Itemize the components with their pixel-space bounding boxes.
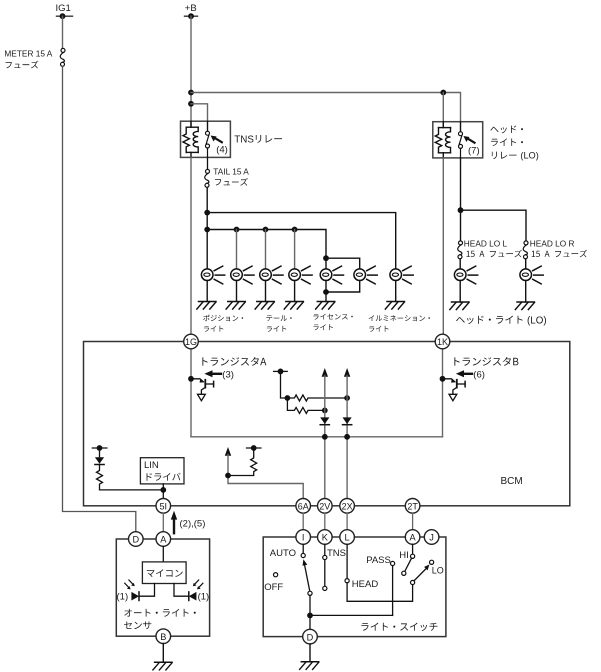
wire I to AUTO contact: [302, 544, 304, 553]
svg-text:HEAD LO R: HEAD LO R: [530, 238, 575, 248]
junction lamp3: [263, 227, 269, 233]
connector 2X: [340, 499, 355, 514]
wire license parallel top: [326, 258, 360, 269]
svg-text:J: J: [429, 533, 434, 543]
resistor R1 to 2X line: [287, 395, 347, 401]
wire +B to TNS relay switch: [191, 104, 208, 131]
connector 1K: [435, 334, 450, 349]
wire head lamp L ground: [459, 281, 461, 303]
wire 6A branch: [228, 455, 303, 499]
wire right head fuse to lamp: [525, 259, 527, 269]
wire IG1 to METER fuse: [62, 16, 64, 48]
contact HI blade end: [402, 571, 406, 575]
node pullup T-bar: [274, 369, 288, 375]
label illumination light: [369, 315, 430, 332]
svg-text:2X: 2X: [342, 501, 353, 511]
wire 1G to rail: [190, 349, 192, 437]
svg-text:(4): (4): [216, 145, 228, 156]
wire to head relay coil: [442, 93, 444, 128]
lamp illumination: [390, 266, 413, 284]
wire lamp1 drop: [206, 230, 208, 270]
rail 1G to 1K: [191, 436, 443, 438]
fuse HEAD LO L 15 A: [458, 238, 522, 258]
junction lamp2: [234, 227, 240, 233]
wire LIN branch top: [99, 448, 101, 457]
ground light switch: [300, 662, 319, 670]
resistor R2 to 2V line: [287, 398, 324, 413]
wire TNS coil to 1G: [190, 157, 192, 334]
ground lamp7: [385, 302, 404, 310]
svg-text:A: A: [410, 533, 417, 543]
label light switch: [361, 623, 437, 631]
svg-text:D: D: [132, 535, 139, 545]
wire head relay switch down: [460, 158, 462, 241]
wire 2X to L: [346, 513, 348, 530]
lamp license 1: [320, 266, 343, 284]
svg-text:K: K: [322, 533, 329, 543]
svg-text:HI: HI: [399, 550, 409, 561]
wire common: [310, 614, 393, 616]
label license light: [313, 314, 352, 331]
wire L to HEAD contact: [346, 544, 348, 578]
wire sensor A to micon: [162, 546, 164, 562]
junction license parallel bottom: [323, 289, 329, 295]
photodiode left (1): [117, 580, 140, 603]
wire micon to right photodiode: [174, 584, 188, 597]
label head light LO: [456, 316, 522, 324]
contact AUTO blade end: [308, 591, 312, 595]
svg-text:+B: +B: [185, 3, 197, 14]
box micon: [142, 562, 186, 584]
lamp position 1: [201, 266, 224, 284]
wire TNS switch to TAIL fuse: [207, 157, 209, 169]
connector switch L: [340, 530, 355, 545]
box light switch: [263, 537, 446, 637]
wire license parallel bottom: [326, 281, 360, 293]
wire lamp2 to ground: [236, 281, 238, 302]
contact PASS: [391, 561, 395, 565]
junction bus1: [204, 210, 210, 216]
wire lamp5 to ground: [325, 281, 327, 302]
contact TNS bottom: [323, 586, 327, 590]
contact AUTO: [301, 553, 305, 557]
arrow up 2V: [322, 368, 328, 377]
wire AUTO blade to common: [309, 595, 311, 629]
wire PASS to common: [392, 566, 394, 616]
contact TNS top: [323, 555, 327, 559]
lamp head LO right: [520, 266, 543, 284]
lamp license 2: [354, 266, 377, 284]
blade LO: [414, 565, 429, 581]
wire lamp4 to ground: [294, 281, 296, 302]
svg-text:(2),(5): (2),(5): [180, 518, 206, 529]
wire TAIL fuse to lamp bus: [206, 188, 208, 230]
arrow up 2X: [344, 368, 350, 377]
svg-text:BCM: BCM: [501, 476, 523, 487]
svg-text:(7): (7): [468, 145, 480, 156]
ground lamp4: [284, 302, 303, 310]
svg-text:TAIL 15 A: TAIL 15 A: [213, 167, 249, 177]
svg-text:IG1: IG1: [56, 3, 71, 14]
wire bus1 to illumination lamp: [207, 213, 396, 269]
wire pullup down: [281, 371, 288, 398]
wire +B to head light relay: [191, 93, 461, 132]
contact HEAD: [345, 579, 349, 583]
box LIN driver: [140, 458, 184, 484]
wire 5I to sensor A: [162, 513, 164, 532]
diode D2 on 2X: [343, 417, 352, 424]
wire METER fuse to sensor D: [63, 67, 136, 533]
junction lamp4: [292, 227, 298, 233]
contact LO blade end: [411, 580, 415, 584]
resistor R3 6A branch: [228, 448, 257, 476]
ground sensor: [153, 662, 172, 670]
junction 2X rail: [344, 434, 350, 440]
node LIN T-bar: [92, 445, 107, 451]
label auto light sensor: [124, 609, 196, 629]
arrow up 6A branch: [225, 447, 231, 456]
node 6A T-bar: [247, 445, 261, 451]
junction pullup: [285, 395, 291, 401]
junction switch common: [307, 613, 313, 619]
svg-text:L: L: [345, 533, 350, 543]
junction +B head relay branch: [188, 90, 194, 96]
ground lamp3: [255, 302, 274, 310]
wire +B to TNS relay coil: [190, 16, 192, 127]
junction 2V rail: [322, 434, 328, 440]
fuse METER 15 A: [4, 48, 65, 68]
wire head relay coil to 1K: [442, 158, 444, 334]
svg-text:2T: 2T: [407, 501, 418, 511]
svg-text:HEAD LO L: HEAD LO L: [464, 238, 508, 248]
label position light: [203, 315, 243, 332]
wire 2T to switch A: [412, 513, 414, 530]
wire 6A to I: [302, 513, 304, 530]
wire 1K to rail: [442, 349, 444, 437]
svg-text:PASS: PASS: [366, 555, 391, 566]
svg-text:(LO): (LO): [527, 315, 547, 326]
svg-text:D: D: [307, 632, 314, 642]
connector switch A: [405, 530, 420, 545]
svg-text:HEAD: HEAD: [352, 579, 379, 590]
junction +B TNS switch branch: [188, 101, 194, 107]
wire to right head fuse: [461, 210, 527, 241]
connector 6A: [296, 499, 311, 514]
svg-text:LO: LO: [432, 566, 444, 576]
ground lamp1: [197, 302, 216, 310]
label tail light: [266, 315, 291, 331]
blade HI: [405, 558, 412, 571]
wire bus2: [207, 230, 326, 270]
connector 1G: [184, 334, 199, 349]
wire head lamp R ground: [525, 281, 527, 303]
photodiode right (1): [189, 580, 209, 603]
ground head lamp L: [450, 302, 469, 310]
transistor A (3): [188, 357, 266, 401]
wire TNS segment: [324, 560, 326, 587]
svg-text:(3): (3): [222, 370, 234, 381]
svg-text:1K: 1K: [437, 337, 448, 347]
contact LO: [430, 560, 434, 564]
svg-text:I: I: [302, 533, 305, 543]
diode D1 on 2V: [320, 417, 329, 424]
svg-text:5I: 5I: [160, 501, 168, 511]
connector switch J: [424, 530, 439, 545]
lamp position 2: [231, 266, 254, 284]
svg-text:(LO): (LO): [520, 151, 538, 161]
svg-text:(1): (1): [198, 592, 210, 603]
junction bus2: [204, 227, 210, 233]
wire K to TNS contact: [324, 544, 326, 555]
connector sensor B: [156, 629, 171, 644]
wire 2X line: [346, 376, 348, 499]
wire lamp1 to ground: [206, 281, 208, 302]
BCM box: [84, 342, 570, 506]
lamp tail 2: [289, 266, 312, 284]
ground head lamp R: [515, 302, 534, 310]
wire switch A to HI contact: [412, 544, 414, 554]
svg-text:(6): (6): [473, 370, 485, 381]
node IG1 terminal: [56, 3, 73, 19]
wire micon to left photodiode: [140, 584, 155, 597]
connector 2T: [405, 499, 420, 514]
svg-text:TNS: TNS: [234, 134, 254, 145]
transistor B (6): [440, 357, 519, 401]
wire 2V line: [324, 376, 326, 499]
wire 2V to K: [324, 513, 326, 530]
fuse HEAD LO R 15 A: [523, 238, 587, 258]
svg-text:LIN: LIN: [144, 460, 159, 471]
wire lamp2 drop: [236, 230, 238, 270]
wire lamp3 to ground: [265, 281, 267, 302]
svg-text:B: B: [160, 632, 166, 642]
arrow (2),(5): [171, 511, 206, 533]
contact OFF: [274, 573, 278, 577]
wire left head fuse to lamp: [459, 259, 461, 269]
fuse TAIL 15 A: [205, 167, 250, 188]
lamp tail 1: [260, 266, 283, 284]
junction R1 2X: [344, 395, 350, 401]
node +B terminal: [185, 3, 198, 19]
ground lamp2: [226, 302, 245, 310]
contact HI: [411, 554, 415, 558]
junction 6A branch: [225, 473, 231, 479]
wire sensor B ground: [162, 644, 164, 663]
blade AUTO: [303, 559, 310, 591]
ground lamp5: [316, 302, 335, 310]
junction head fuses: [458, 207, 464, 213]
connector switch I: [296, 530, 311, 545]
box auto light sensor: [116, 539, 209, 636]
wire HEAD to LO blade: [347, 583, 413, 602]
junction R2 2V: [322, 408, 328, 414]
svg-text:TNS: TNS: [327, 548, 346, 559]
svg-text:AUTO: AUTO: [270, 548, 296, 559]
junction license parallel top: [323, 255, 329, 261]
wire lamp4 drop: [294, 230, 296, 270]
svg-text:(1): (1): [117, 592, 129, 603]
wire LIN box to 5I: [162, 484, 164, 499]
junction head relay coil branch: [440, 90, 446, 96]
svg-text:OFF: OFF: [264, 582, 283, 593]
connector 2V: [318, 499, 333, 514]
connector switch D: [303, 629, 318, 644]
svg-text:A: A: [160, 535, 167, 545]
wire lamp7 to ground: [395, 281, 397, 302]
lamp head LO left: [454, 266, 477, 284]
connector sensor A: [156, 532, 171, 547]
relay TNS (4): [181, 121, 283, 157]
wire lamp3 drop: [265, 230, 267, 270]
wire switch D ground: [309, 644, 311, 662]
connector 5I: [156, 499, 171, 514]
svg-text:1G: 1G: [185, 337, 197, 347]
diode D3 LIN branch: [95, 457, 104, 464]
svg-text:2V: 2V: [319, 501, 330, 511]
relay headlight LO (7): [433, 122, 539, 161]
svg-text:METER 15 A: METER 15 A: [4, 48, 52, 58]
svg-text:6A: 6A: [298, 501, 309, 511]
junction LIN 5I: [160, 487, 166, 493]
resistor R4 LIN branch: [97, 465, 164, 490]
connector sensor D: [129, 532, 144, 547]
connector switch K: [318, 530, 333, 545]
